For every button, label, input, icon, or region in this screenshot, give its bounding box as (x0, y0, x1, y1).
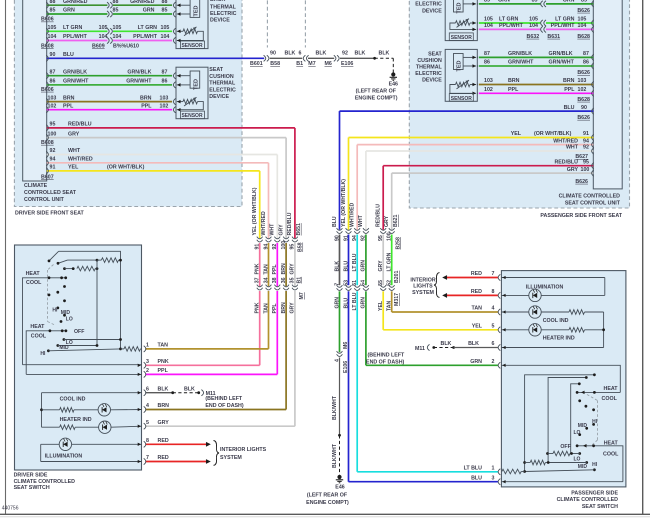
svg-text:85: 85 (484, 0, 490, 4)
svg-text:GRN: GRN (563, 0, 575, 4)
svg-text:ILLUMINATION: ILLUMINATION (526, 284, 564, 290)
wire 91 YEL (driver) (47, 170, 260, 172)
svg-text:GRY: GRY (567, 167, 579, 173)
svg-text:54: 54 (361, 280, 367, 286)
svg-text:B626: B626 (577, 8, 590, 14)
svg-text:95: 95 (50, 122, 56, 128)
svg-text:BLU: BLU (63, 52, 74, 58)
dashed BLK wire to ground corner (375, 57, 394, 59)
svg-text:OFF: OFF (560, 444, 570, 450)
svg-text:SEAT CONTROL UNIT: SEAT CONTROL UNIT (565, 200, 621, 206)
svg-text:GRN/BLK: GRN/BLK (127, 69, 151, 75)
svg-text:E106: E106 (341, 61, 353, 67)
inline connector row B651/B58 (driver columns) (257, 237, 263, 239)
svg-text:GRN/WHT: GRN/WHT (508, 60, 534, 66)
svg-text:LT BLU: LT BLU (464, 466, 483, 472)
svg-text:3: 3 (492, 475, 495, 481)
svg-text:8: 8 (492, 289, 495, 295)
wire 95 RED/BLU vertical (passenger) (382, 166, 384, 230)
svg-text:5: 5 (492, 324, 495, 330)
svg-text:CLIMATE CONTROLLED: CLIMATE CONTROLLED (559, 194, 621, 200)
wire 85 GRN (driver seat back TED) (47, 13, 108, 15)
wire 3 PNK to driver switch (145, 364, 259, 366)
svg-text:86: 86 (50, 79, 56, 85)
svg-text:GRY: GRY (378, 260, 384, 272)
svg-text:92: 92 (50, 148, 56, 154)
svg-text:GRN: GRN (361, 297, 367, 309)
svg-text:102: 102 (578, 87, 587, 93)
sensor (passenger seat back) thermistor (470, 22, 476, 24)
svg-text:B601: B601 (250, 61, 263, 67)
wire 104 PPL/WHT (driver seat back sensor) (47, 40, 108, 42)
svg-text:DRIVER SIDE FRONT SEAT: DRIVER SIDE FRONT SEAT (15, 210, 85, 216)
wire 92 WHT vertical (passenger) (365, 151, 367, 230)
svg-text:YEL (OR WHT/BLK): YEL (OR WHT/BLK) (252, 187, 258, 235)
svg-text:RED: RED (471, 289, 482, 295)
svg-text:LO: LO (574, 430, 581, 436)
svg-text:91: 91 (50, 165, 56, 171)
svg-text:100: 100 (48, 131, 57, 137)
pin 3 internal wire (driver) (23, 364, 142, 366)
svg-text:PPL: PPL (63, 103, 74, 109)
svg-text:LT GRN: LT GRN (63, 25, 82, 31)
page border frame (5, 0, 7, 514)
svg-text:B628: B628 (577, 34, 590, 40)
splice on BLK/WHT (338, 434, 341, 437)
wire 87 GRN/BLK (passenger cushion TED) (479, 56, 594, 58)
TED feed lines with arrows (177, 4, 190, 6)
svg-text:TED: TED (193, 79, 199, 90)
svg-text:BLK: BLK (355, 51, 366, 57)
svg-text:B651: B651 (296, 223, 302, 236)
inline connector E106 (334, 55, 336, 61)
svg-text:GRN/RED: GRN/RED (130, 0, 155, 5)
svg-text:BRN: BRN (508, 78, 520, 84)
wire 4 TAN to passenger switch (392, 311, 499, 313)
SENSOR sub-box (passenger cushion) (449, 94, 473, 102)
svg-text:BLK: BLK (379, 51, 390, 57)
wiper arm 1 (driver) (49, 251, 59, 261)
svg-text:GRN/BLK: GRN/BLK (508, 51, 532, 57)
svg-text:103: 103 (48, 95, 57, 101)
svg-text:PPL: PPL (508, 87, 519, 93)
svg-text:GRY: GRY (68, 131, 80, 137)
svg-text:GRN: GRN (334, 297, 340, 309)
inline connector M7/M6 (306, 55, 308, 61)
wire 86 GRN/WHT (driver cushion TED) (47, 84, 172, 86)
wires below M7 to switch rows (driver) (259, 291, 261, 365)
svg-text:WHT: WHT (566, 145, 579, 151)
svg-text:YEL: YEL (68, 165, 79, 171)
wire 94 WHT/RED vertical (passenger) (356, 145, 358, 230)
svg-text:M6: M6 (325, 61, 332, 67)
svg-text:BLK: BLK (158, 386, 169, 392)
svg-text:GRN/BLK: GRN/BLK (549, 51, 573, 57)
svg-text:90: 90 (50, 52, 56, 58)
svg-text:BRN: BRN (281, 302, 287, 313)
svg-text:SEAT SWITCH: SEAT SWITCH (582, 504, 618, 510)
svg-text:86: 86 (583, 60, 589, 66)
passenger side front seat dashed harness box (409, 0, 629, 208)
svg-text:BLK/WHT: BLK/WHT (332, 443, 338, 468)
svg-text:92: 92 (342, 51, 348, 57)
svg-text:M7: M7 (308, 61, 315, 67)
wires between B58 and B1 (driver columns) (259, 243, 261, 286)
svg-text:COOL: COOL (31, 333, 47, 339)
svg-text:WHT/RED: WHT/RED (68, 157, 93, 163)
svg-text:4: 4 (492, 306, 495, 312)
svg-text:440756: 440756 (2, 506, 19, 512)
svg-text:RED: RED (158, 455, 169, 461)
svg-text:6: 6 (146, 386, 149, 392)
svg-text:88: 88 (50, 0, 56, 5)
svg-text:CLIMATE: CLIMATE (24, 183, 48, 189)
svg-text:BRN: BRN (158, 403, 170, 409)
wire 94 WHT/RED vertical to B58 (268, 163, 270, 238)
passenger side climate controlled seat switch box (501, 271, 626, 487)
svg-text:BLK: BLK (441, 341, 452, 347)
ILLUMINATION circuit (passenger) (501, 277, 604, 279)
svg-text:LT GRN: LT GRN (555, 17, 574, 23)
svg-text:CONTROLLED SEAT: CONTROLLED SEAT (24, 190, 77, 196)
wire 8 RED to interior lights (driver) (145, 443, 206, 445)
svg-text:100: 100 (581, 167, 590, 173)
svg-text:87: 87 (484, 51, 490, 57)
rail A top (driver rotary) (59, 251, 121, 349)
wire 5 YEL to passenger switch (383, 329, 498, 331)
svg-text:BLU: BLU (343, 298, 349, 309)
wires between B258 and B201 (passenger columns) (339, 235, 341, 286)
SENSOR sub-box (passenger seat back) (449, 33, 473, 41)
svg-text:SENSOR: SENSOR (181, 43, 203, 49)
SENSOR sub-box (driver cushion) (181, 111, 205, 119)
wire 100 GRY (driver) (47, 137, 286, 139)
svg-text:WHT: WHT (270, 223, 276, 236)
svg-text:YEL: YEL (378, 300, 384, 311)
svg-text:BACK: BACK (210, 0, 225, 3)
COOL IND circuit (passenger) (501, 311, 528, 313)
svg-text:52: 52 (387, 280, 393, 286)
svg-text:CUSHION: CUSHION (209, 74, 234, 80)
svg-text:85: 85 (532, 0, 538, 4)
svg-text:B626: B626 (577, 70, 590, 76)
svg-text:3: 3 (146, 359, 149, 365)
svg-text:104: 104 (578, 23, 587, 29)
svg-text:104: 104 (529, 23, 538, 29)
svg-text:COOL: COOL (26, 280, 42, 286)
svg-text:53: 53 (343, 280, 349, 286)
svg-text:4: 4 (146, 403, 149, 409)
HI contact row 2 (passenger) (593, 468, 596, 471)
svg-text:B609: B609 (92, 43, 105, 49)
svg-text:85: 85 (581, 0, 587, 4)
svg-text:LT GRN: LT GRN (387, 252, 393, 271)
svg-text:GRN: GRN (498, 0, 510, 4)
svg-text:RED: RED (158, 438, 169, 444)
TED feed lines (driver cushion) (177, 75, 190, 77)
svg-text:COOL IND: COOL IND (60, 397, 86, 403)
ground E46 (top) (391, 72, 395, 76)
TED sub-box (passenger seat back) (454, 0, 464, 12)
inline connector row B201/M317 (passenger columns) (337, 285, 343, 287)
svg-text:88: 88 (162, 0, 168, 5)
svg-text:88: 88 (113, 0, 119, 5)
inline connector M6/E106 on ground path (337, 351, 343, 353)
svg-text:GRN: GRN (143, 8, 155, 14)
TED feed lines (passenger cushion) (463, 56, 476, 58)
rail A (passenger rotary) (525, 375, 595, 472)
svg-text:PPL/WHT: PPL/WHT (551, 23, 576, 29)
rail C (passenger rotary) (571, 384, 580, 454)
svg-text:B606: B606 (41, 87, 54, 93)
svg-text:BRN: BRN (63, 95, 75, 101)
svg-text:55: 55 (378, 280, 384, 286)
svg-text:RED/BLU: RED/BLU (68, 122, 92, 128)
svg-text:ELECTRIC: ELECTRIC (209, 87, 236, 93)
wire 100 GRY vertical (passenger) (391, 173, 393, 230)
svg-text:SENSOR: SENSOR (451, 96, 473, 102)
wiper dashed axis (driver) (48, 265, 54, 271)
svg-text:GRY: GRY (290, 302, 296, 314)
svg-text:CONTROL UNIT: CONTROL UNIT (24, 197, 65, 203)
svg-text:PPL: PPL (272, 264, 278, 275)
svg-text:M317: M317 (394, 293, 400, 306)
svg-text:ILLUMINATION: ILLUMINATION (45, 454, 83, 460)
svg-text:SEAT: SEAT (428, 51, 442, 57)
svg-text:2: 2 (146, 368, 149, 374)
svg-text:DRIVER SIDE: DRIVER SIDE (14, 472, 48, 478)
driver side front seat dashed harness box (14, 0, 242, 207)
svg-text:PPL: PPL (141, 103, 152, 109)
svg-text:GRY: GRY (158, 420, 170, 426)
svg-text:104: 104 (99, 34, 108, 40)
svg-text:TAN: TAN (158, 343, 169, 349)
svg-text:38: 38 (272, 277, 278, 283)
svg-text:DEVICE: DEVICE (422, 8, 442, 14)
svg-text:GRY: GRY (384, 215, 390, 227)
svg-text:BLK/WHT: BLK/WHT (332, 395, 338, 420)
svg-text:TED: TED (193, 5, 199, 16)
wire 87 GRN/BLK (driver cushion TED) (47, 75, 172, 77)
svg-text:END OF DASH): END OF DASH) (205, 403, 243, 409)
dashed BLK/WHT to ground (339, 435, 341, 475)
svg-text:ELECTRIC: ELECTRIC (415, 2, 442, 8)
svg-text:PPL/WHT: PPL/WHT (133, 34, 158, 40)
wire 1 LT BLU to passenger switch (357, 471, 498, 473)
MID contact row 2 (passenger) (585, 461, 588, 464)
svg-text:6: 6 (492, 341, 495, 347)
rail B with resistor (driver rotary) (58, 260, 68, 263)
svg-text:104: 104 (161, 34, 170, 40)
wire 100 GRY vertical to B58 (285, 138, 287, 239)
svg-text:94: 94 (583, 138, 589, 144)
svg-text:MID: MID (578, 464, 588, 470)
seat cushion thermal electric device (driver) (176, 67, 208, 119)
svg-text:PNK: PNK (158, 359, 169, 365)
TED sub-box (passenger cushion) (454, 54, 464, 70)
wire BLK B58 to M7/M6 (270, 57, 302, 59)
svg-text:SENSOR: SENSOR (181, 113, 203, 119)
svg-text:GRN/BLK: GRN/BLK (63, 69, 87, 75)
svg-text:1: 1 (146, 343, 149, 349)
svg-text:B632: B632 (527, 34, 540, 40)
svg-text:LT BLU: LT BLU (352, 292, 358, 310)
LED rail + pin6 wire (passenger) (603, 312, 605, 348)
pin 3 BLU internal wire (passenger) (501, 481, 623, 483)
svg-text:BLK: BLK (334, 261, 340, 272)
svg-text:TAN: TAN (263, 264, 269, 275)
svg-text:2: 2 (492, 359, 495, 365)
svg-text:M7: M7 (299, 292, 305, 299)
svg-text:M6: M6 (343, 342, 349, 349)
svg-text:105: 105 (578, 17, 587, 23)
climate controlled seat control unit (driver) U1 (23, 0, 47, 181)
resistor row C (passenger) (546, 452, 549, 455)
wire 3 BLU to passenger switch (349, 481, 499, 483)
svg-text:MID: MID (61, 310, 71, 316)
svg-text:YEL: YEL (472, 324, 483, 330)
pin 6 internal wire + LED rail (driver) (42, 392, 142, 394)
svg-text:102: 102 (48, 103, 57, 109)
svg-text:GRN: GRN (361, 260, 367, 272)
wire 90 BLU vertical (passenger) (339, 111, 341, 230)
svg-text:DEVICE: DEVICE (422, 78, 442, 84)
seat back thermal electric device (driver) (176, 0, 208, 49)
svg-text:B631: B631 (547, 34, 560, 40)
svg-text:LIGHTS: LIGHTS (413, 284, 433, 290)
svg-text:GRY: GRY (290, 263, 296, 275)
svg-text:LO: LO (66, 317, 73, 323)
svg-text:TAN: TAN (263, 303, 269, 314)
resistor row B (passenger) (523, 461, 526, 464)
svg-text:THERMAL: THERMAL (416, 65, 443, 71)
sensor (driver cushion) thermistor (177, 101, 183, 103)
svg-text:HI: HI (52, 307, 58, 313)
svg-text:MID: MID (578, 423, 588, 429)
svg-text:WHT/RED: WHT/RED (261, 211, 267, 235)
svg-text:85: 85 (113, 8, 119, 14)
svg-text:87: 87 (583, 51, 589, 57)
svg-text:HEAT: HEAT (26, 271, 41, 277)
svg-text:SEAT: SEAT (209, 67, 223, 73)
wire 7 RED interior lights (passenger) (447, 277, 499, 279)
pin 1 internal resistor (passenger) (502, 469, 521, 474)
svg-text:36: 36 (281, 277, 287, 283)
svg-text:COOL IND: COOL IND (543, 318, 569, 324)
svg-text:B607: B607 (41, 174, 54, 180)
seat cushion thermal electric device (passenger) (445, 49, 477, 101)
seat back thermal electric device (passenger) (445, 0, 477, 41)
svg-text:86: 86 (484, 60, 490, 66)
svg-text:94: 94 (50, 157, 56, 163)
wire 100 GRY (passenger) horizontal (392, 172, 594, 174)
svg-text:DEVICE: DEVICE (210, 18, 230, 24)
svg-text:B58: B58 (270, 61, 280, 67)
rail B (passenger rotary) (548, 378, 586, 463)
svg-text:B1: B1 (296, 277, 302, 284)
svg-text:E46: E46 (389, 82, 398, 88)
svg-text:PNK: PNK (255, 302, 261, 313)
svg-text:6: 6 (299, 51, 302, 57)
wire 102 PPL (passenger cushion sensor) (479, 92, 594, 94)
svg-text:RED/BLU: RED/BLU (376, 204, 382, 227)
svg-text:PNK: PNK (255, 263, 261, 274)
svg-text:HI: HI (592, 462, 598, 468)
svg-text:105: 105 (113, 25, 122, 31)
svg-text:SEAT SWITCH: SEAT SWITCH (14, 485, 50, 491)
svg-text:TED: TED (457, 2, 463, 13)
svg-text:BLK: BLK (184, 386, 195, 392)
wire 94 WHT/RED (passenger) horizontal (357, 144, 593, 146)
climate controlled seat control unit (passenger) U2 (593, 0, 622, 189)
svg-text:BLU: BLU (343, 261, 349, 272)
svg-text:TED: TED (457, 60, 463, 71)
harness boundary dashed lines at B58 (266, 0, 268, 48)
svg-text:7: 7 (492, 271, 495, 277)
svg-text:TAN: TAN (472, 306, 483, 312)
svg-text:HI: HI (40, 351, 46, 357)
svg-text:85: 85 (50, 8, 56, 14)
svg-text:BRN: BRN (563, 78, 575, 84)
svg-text:87: 87 (50, 69, 56, 75)
svg-text:HEAT: HEAT (604, 386, 619, 392)
svg-text:B258: B258 (395, 237, 401, 250)
svg-text:102: 102 (484, 87, 493, 93)
wire 103 BRN (passenger cushion sensor) (479, 84, 594, 86)
TED sub-box (driver cushion) (190, 71, 200, 88)
TED feed line (passenger seat back) (463, 3, 476, 5)
svg-text:HEATER IND: HEATER IND (543, 336, 575, 342)
wire 90 BLU (passenger) horizontal (340, 110, 594, 112)
svg-text:GRN/WHT: GRN/WHT (63, 79, 89, 85)
SENSOR sub-box (driver seat back) (181, 41, 205, 49)
svg-text:105: 105 (529, 17, 538, 23)
svg-text:COOL: COOL (602, 396, 618, 402)
wires below B201 (passenger) (339, 291, 341, 352)
svg-text:85: 85 (162, 8, 168, 14)
svg-text:104: 104 (48, 34, 57, 40)
driver side climate controlled seat switch box (15, 245, 142, 470)
svg-text:37: 37 (255, 277, 261, 283)
svg-text:102: 102 (160, 103, 169, 109)
svg-text:(OR WHT/BLK): (OR WHT/BLK) (534, 131, 572, 137)
svg-text:ELECTRIC: ELECTRIC (210, 11, 237, 17)
svg-text:34: 34 (263, 277, 269, 283)
svg-text:(LEFT REAR OF: (LEFT REAR OF (307, 492, 348, 498)
svg-text:SYSTEM: SYSTEM (220, 455, 242, 461)
svg-text:GRN/WHT: GRN/WHT (549, 60, 575, 66)
svg-text:103: 103 (484, 78, 493, 84)
svg-text:103: 103 (160, 95, 169, 101)
wire BLK E106 to splice (340, 57, 375, 59)
wire 91 YEL vertical to B58 (259, 171, 261, 238)
svg-text:HI: HI (592, 419, 598, 425)
interior lights system brace (driver) (214, 441, 220, 466)
svg-text:BLK: BLK (468, 341, 479, 347)
wire 92 WHT (passenger) horizontal (366, 150, 593, 152)
svg-text:GRN/RED: GRN/RED (63, 0, 88, 5)
svg-text:B621: B621 (393, 214, 399, 227)
rail C with resistor (driver rotary) (63, 267, 66, 270)
svg-text:OFF: OFF (74, 329, 84, 335)
BLK/WHT ground wire below E106 (339, 358, 341, 436)
TED sub-box (driver seat back) (190, 0, 200, 17)
svg-text:LT BLU: LT BLU (352, 253, 358, 271)
svg-text:CLIMATE CONTROLLED: CLIMATE CONTROLLED (557, 497, 619, 503)
wire 5 GRY to driver switch (145, 425, 295, 427)
GRN pin2 internal wire (passenger rotary) (501, 365, 620, 392)
wire 88 GRN/RED (driver seat back TED) (47, 4, 108, 6)
